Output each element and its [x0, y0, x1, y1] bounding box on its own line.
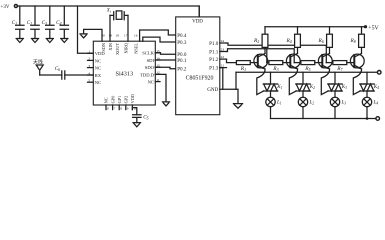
pin GND (MCU right) — [207, 87, 238, 104]
svg-text:R4: R4 — [285, 38, 291, 44]
svg-text:SDO: SDO — [145, 65, 155, 70]
wire TDD.D to ground — [155, 74, 166, 102]
svg-text:L3: L3 — [341, 101, 347, 106]
svg-text:NIRQ: NIRQ — [124, 42, 129, 53]
ground under C5 — [133, 123, 141, 127]
node +5V — [364, 25, 380, 31]
svg-text:C5: C5 — [143, 114, 148, 120]
svg-text:L1: L1 — [276, 101, 282, 106]
triac K2 — [296, 84, 315, 91]
pin P0.4 (MCU left) — [177, 33, 187, 39]
pin P0.2 (MCU left) — [177, 67, 187, 73]
pin 5 NC (Si4313 left) — [88, 79, 102, 86]
pin 24 P1.0 (MCU right) — [209, 39, 226, 47]
wire triac K4 to AC bus — [366, 72, 368, 84]
pin P0.0 (MCU left) — [177, 52, 187, 58]
pin 20 SDN (Si4313 top label) — [101, 33, 106, 51]
pin 7 GP0 (Si4313 bottom) — [110, 96, 115, 111]
triac K1 — [263, 84, 282, 91]
wire triac K2 to lamp L2 — [302, 91, 304, 97]
svg-text:R1: R1 — [240, 66, 246, 72]
svg-text:SDI: SDI — [147, 58, 155, 63]
svg-text:R5: R5 — [304, 66, 310, 72]
wire antenna to C6 — [40, 74, 62, 76]
node +3V — [1, 5, 18, 11]
wire +3V to Si4313 VDD pin1 — [78, 6, 94, 53]
svg-text:2: 2 — [88, 57, 90, 61]
svg-text:3: 3 — [88, 64, 90, 68]
svg-text:22: 22 — [221, 55, 225, 59]
svg-text:P1.1: P1.1 — [209, 49, 219, 55]
wire SDN to ground — [84, 29, 102, 41]
svg-text:RX: RX — [95, 73, 102, 78]
wire emitter of Q1 to gate of K1 — [257, 69, 265, 95]
wire lamp L4 to neutral rail — [366, 107, 368, 119]
svg-text:R2: R2 — [253, 38, 259, 44]
resistor R5 base channel 3 — [294, 61, 322, 72]
wire NIRQ to P0.3 — [143, 37, 176, 42]
pin 1 VDD (Si4313 left) — [88, 50, 106, 57]
svg-text:XIN: XIN — [108, 43, 113, 51]
wire +5V rail — [265, 26, 366, 28]
wire triac K1 to AC bus — [270, 72, 272, 84]
junction lamp L4 / rail — [366, 117, 369, 120]
transistor Q3 — [318, 54, 332, 70]
ground at TDD.D — [162, 102, 169, 106]
capacitor C6 — [55, 66, 65, 79]
svg-text:R8: R8 — [349, 38, 355, 44]
pin VDD (MCU top) — [198, 6, 200, 17]
antenna 天线 — [33, 59, 43, 75]
wire triac K2 to AC bus — [302, 72, 304, 84]
svg-text:R3: R3 — [272, 66, 278, 72]
svg-text:L2: L2 — [309, 101, 315, 106]
svg-text:1: 1 — [88, 50, 90, 54]
svg-text:P0.3: P0.3 — [177, 40, 187, 46]
wire SDI to P0.1 — [155, 59, 175, 61]
wire triac K1 to lamp L1 — [270, 91, 272, 97]
wire triac K4 to lamp L4 — [366, 91, 368, 97]
resistor R1 base channel 1 — [236, 61, 257, 72]
svg-text:XOUT: XOUT — [115, 43, 120, 55]
wire AC neutral rail — [271, 118, 376, 120]
svg-text:7: 7 — [114, 107, 116, 111]
wire XOUT lead — [127, 15, 129, 41]
svg-text:NSEL: NSEL — [134, 43, 139, 54]
wire pin10 to C5 — [132, 108, 136, 115]
ground at MCU GND — [233, 104, 242, 109]
wire C6 to RX pin4 — [65, 74, 94, 76]
resistor R8 pull-up channel 4 — [349, 27, 364, 54]
svg-text:P0.4: P0.4 — [177, 33, 187, 39]
transistor Q4 — [350, 54, 364, 70]
crystal X1 — [106, 9, 128, 20]
svg-text:P0.2: P0.2 — [177, 67, 187, 73]
pin 23 P1.1 (MCU right) — [209, 48, 226, 56]
svg-text:GP2: GP2 — [124, 96, 129, 104]
svg-text:SCLK: SCLK — [142, 51, 154, 56]
svg-text:C2: C2 — [27, 20, 32, 26]
resistor R7 base channel 4 — [326, 61, 354, 72]
wire emitter of Q2 to gate of K2 — [289, 69, 297, 95]
wire triac K3 to lamp L3 — [334, 91, 336, 97]
svg-text:K3: K3 — [341, 85, 347, 90]
pin 8 GP1 (Si4313 bottom) — [117, 96, 122, 111]
pin 13 SDO (Si4313 right) — [145, 64, 160, 71]
wire branch to channel 2 base — [266, 49, 268, 63]
svg-text:TDD.D: TDD.D — [140, 72, 155, 77]
svg-text:NC: NC — [95, 66, 101, 71]
svg-text:+3V: +3V — [1, 5, 10, 10]
svg-text:11: 11 — [156, 78, 160, 82]
svg-text:C4: C4 — [56, 20, 61, 26]
svg-text:P1.0: P1.0 — [209, 41, 219, 47]
resistor R4 pull-up channel 2 — [285, 27, 300, 54]
svg-text:NC: NC — [104, 97, 109, 103]
svg-text:23: 23 — [221, 48, 225, 52]
wire P1.2 to channel 1 base — [227, 59, 237, 63]
wire SDO to P0.2 — [155, 67, 175, 69]
pin 2 NC (Si4313 left) — [88, 57, 102, 64]
svg-text:6: 6 — [107, 107, 109, 111]
svg-text:17: 17 — [124, 33, 128, 37]
pin 9 GP2 (Si4313 bottom) — [124, 96, 129, 111]
capacitor C5 — [133, 114, 149, 122]
svg-text:C6: C6 — [55, 66, 60, 72]
svg-text:16: 16 — [134, 33, 138, 37]
svg-text:R7: R7 — [336, 66, 343, 72]
svg-text:4: 4 — [88, 71, 90, 75]
ground under C3 — [46, 39, 53, 43]
wire emitter of Q3 to gate of K3 — [321, 69, 329, 95]
wire +3V rail — [17, 6, 199, 17]
pin 16 NSEL (Si4313 top label) — [134, 33, 139, 53]
pin 4 RX (Si4313 left) — [88, 71, 102, 78]
capacitor C2 — [27, 6, 39, 39]
svg-text:Si4313: Si4313 — [116, 71, 134, 78]
node AC terminal bottom — [376, 117, 380, 121]
node AC terminal top — [377, 71, 381, 75]
capacitor C1 — [12, 6, 24, 39]
wire triac K3 to AC bus — [334, 72, 336, 84]
svg-text:18: 18 — [116, 33, 120, 37]
svg-text:VDD: VDD — [130, 94, 135, 103]
pin 19 XIN (Si4313 top label) — [108, 33, 113, 50]
svg-text:C3: C3 — [42, 20, 47, 26]
wire AC live bus — [236, 71, 377, 73]
svg-text:+5V: +5V — [368, 25, 379, 31]
lamp L1 — [266, 97, 282, 106]
wire NSEL to P0.4 — [140, 30, 176, 41]
pin 14 SDI (Si4313 right) — [147, 56, 160, 63]
lamp L4 — [362, 97, 378, 106]
transistor Q1 — [254, 54, 268, 70]
wire XIN lead — [109, 15, 111, 41]
pin 3 NC (Si4313 left) — [88, 64, 102, 71]
svg-text:P1.3: P1.3 — [209, 66, 219, 72]
lamp L3 — [330, 97, 346, 106]
wire P1.3 down to AC return — [220, 68, 223, 90]
pin 10 VDD (Si4313 bottom) — [130, 94, 137, 110]
svg-text:GP1: GP1 — [117, 96, 122, 104]
pin 22 P1.2 (MCU right) — [209, 55, 226, 63]
wire P1.1 to channel 3 base — [227, 49, 295, 63]
resistor R6 pull-up channel 3 — [317, 27, 332, 54]
pin 17 NIRQ (Si4313 top label) — [124, 33, 129, 53]
MCU U2 C8051F920 — [176, 17, 220, 115]
svg-text:P0.1: P0.1 — [177, 58, 187, 64]
wire lamp L3 to neutral rail — [334, 107, 336, 119]
wire lamp L2 to neutral rail — [302, 107, 304, 119]
wire lamp L1 to neutral rail — [270, 107, 272, 119]
svg-text:9: 9 — [127, 107, 129, 111]
transistor Q2 — [286, 54, 300, 70]
lamp L2 — [298, 97, 314, 106]
RF receiver U1 Si4313 — [93, 41, 155, 105]
svg-text:R6: R6 — [317, 38, 323, 44]
capacitor C3 — [42, 6, 54, 39]
pin 15 SCLK (Si4313 right) — [142, 49, 160, 56]
pin P0.3 (MCU left) — [177, 40, 187, 46]
svg-text:NC: NC — [95, 80, 101, 85]
svg-text:NC: NC — [95, 58, 101, 63]
capacitor C4 — [56, 6, 68, 39]
svg-text:8: 8 — [120, 107, 122, 111]
wire P1.0 to channel 4 base — [227, 43, 327, 63]
pin 6 NC (Si4313 bottom) — [104, 97, 109, 110]
wire emitter of Q4 to gate of K4 — [353, 69, 361, 95]
ground under C2 — [31, 39, 38, 43]
pin 11 NC (Si4313 right) — [148, 78, 160, 85]
svg-text:X1: X1 — [106, 9, 112, 14]
svg-text:C1: C1 — [12, 20, 17, 26]
pin P0.1 (MCU left) — [177, 58, 187, 64]
svg-text:GND: GND — [207, 87, 218, 93]
wire SCLK to P0.0 — [155, 53, 175, 54]
wire AC bus riser — [235, 72, 237, 89]
svg-text:K2: K2 — [309, 85, 315, 90]
svg-text:L4: L4 — [373, 101, 379, 106]
triac K3 — [328, 84, 347, 91]
svg-text:SDN: SDN — [101, 43, 106, 52]
resistor R2 pull-up channel 1 — [253, 27, 268, 54]
svg-text:P1.2: P1.2 — [209, 57, 219, 63]
pin 18 XOUT (Si4313 top label) — [115, 33, 120, 55]
svg-text:24: 24 — [221, 39, 225, 43]
svg-text:NC: NC — [148, 80, 154, 85]
svg-text:K4: K4 — [373, 85, 379, 90]
ground at SDN — [80, 34, 87, 38]
pin 21 P1.3 (MCU right) — [209, 64, 226, 72]
svg-text:C8051F920: C8051F920 — [186, 76, 214, 82]
svg-text:GP0: GP0 — [110, 96, 115, 104]
svg-text:K1: K1 — [276, 85, 282, 90]
ground under C1 — [16, 39, 23, 43]
ground under C4 — [61, 39, 68, 43]
svg-text:VDD: VDD — [192, 20, 203, 25]
triac K4 — [360, 84, 379, 91]
pin 12 TDD.D (Si4313 right) — [140, 71, 160, 78]
svg-text:5: 5 — [88, 79, 90, 83]
resistor R3 base channel 2 — [267, 61, 291, 72]
